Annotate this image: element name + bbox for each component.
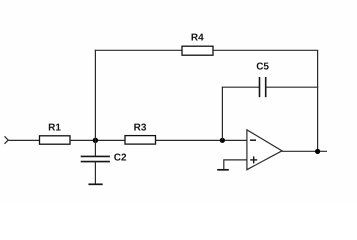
- resistor R3: [125, 123, 156, 145]
- capacitor C2: [81, 140, 127, 184]
- resistor R1: [40, 123, 71, 145]
- wire node A up to top rail: [94, 50, 96, 141]
- node B junction: [220, 138, 225, 143]
- svg-text:R1: R1: [48, 123, 61, 134]
- wire R3 to op-amp inverting input: [156, 139, 247, 141]
- wire feedback rail left of C5: [222, 86, 260, 88]
- wire top rail right of R4: [213, 49, 318, 51]
- wire R1 to R3: [70, 139, 125, 141]
- input terminal: [5, 136, 9, 144]
- node output junction: [315, 149, 320, 154]
- wire top rail left of R4: [95, 49, 183, 51]
- resistor R4: [182, 33, 213, 56]
- svg-text:R3: R3: [134, 123, 147, 134]
- ground op-amp: [217, 169, 229, 171]
- wire input to R1: [8, 139, 39, 141]
- wire node B up to feedback rail: [221, 87, 223, 141]
- wire non-inverting input: [224, 160, 247, 170]
- svg-text:C5: C5: [256, 62, 269, 73]
- node A junction: [93, 138, 98, 143]
- svg-text:R4: R4: [191, 33, 204, 44]
- wire right vertical feedback: [317, 50, 319, 151]
- capacitor C5: [256, 62, 269, 98]
- svg-text:C2: C2: [114, 153, 127, 164]
- op-amp U1: [247, 130, 282, 170]
- wire op-amp output: [282, 150, 328, 152]
- wire feedback rail right of C5: [266, 86, 319, 88]
- ground C2: [88, 183, 102, 185]
